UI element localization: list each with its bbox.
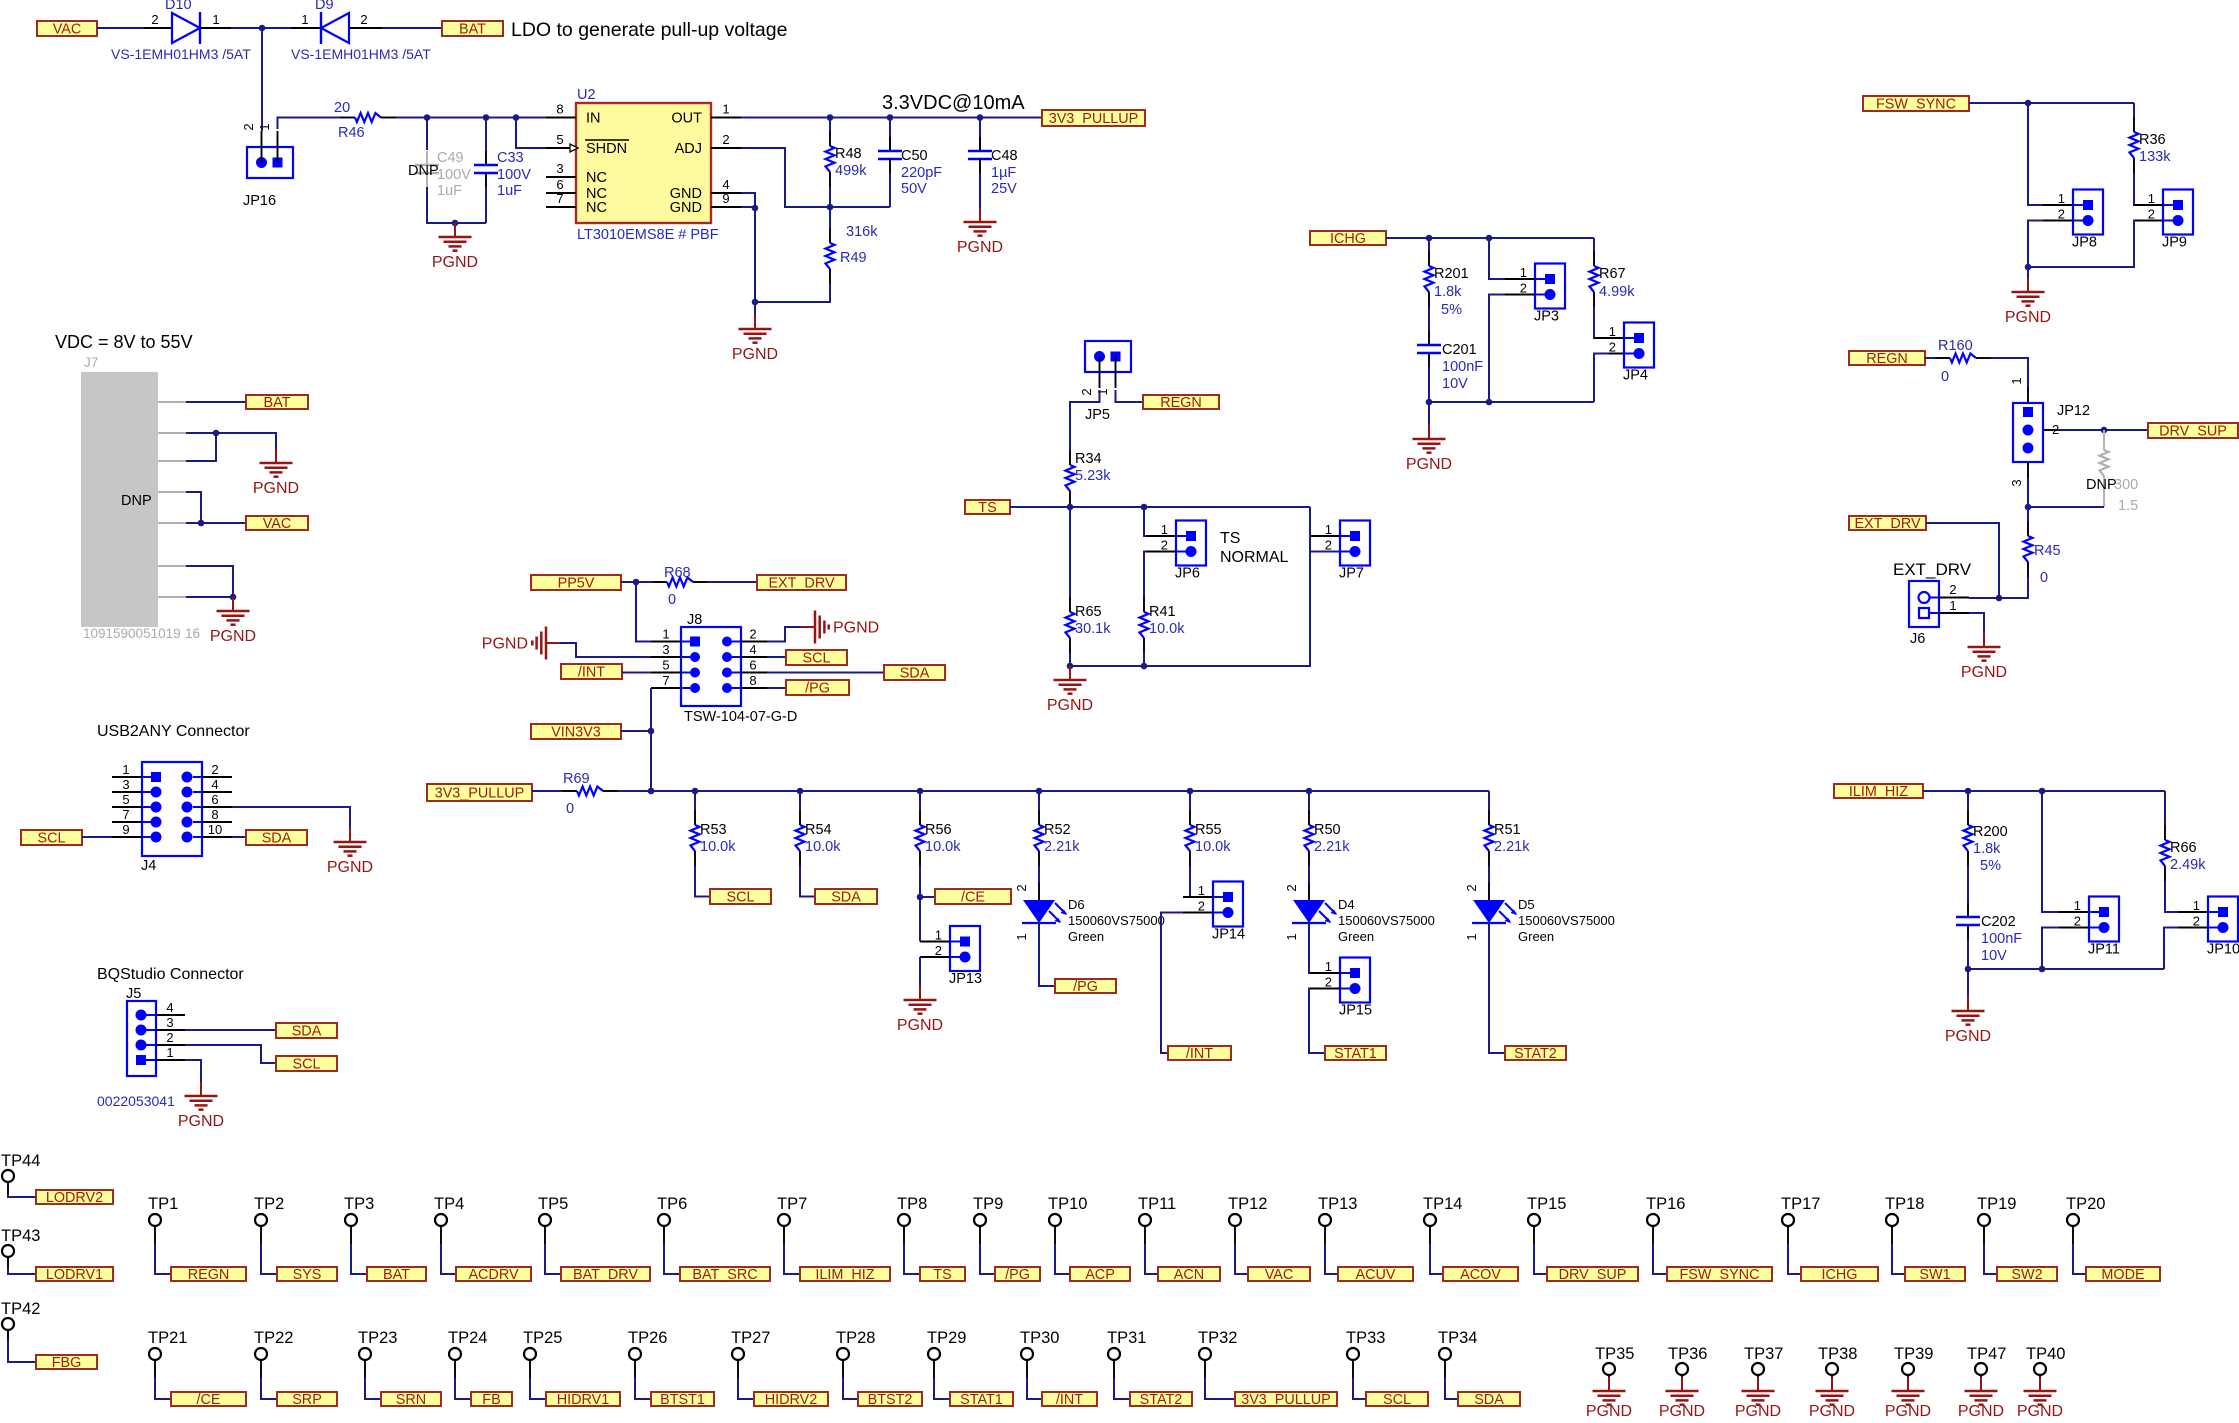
svg-text:SDA: SDA: [262, 831, 292, 847]
test point TP11: [1138, 1195, 1176, 1244]
svg-text:5%: 5%: [1980, 858, 2001, 874]
svg-text:JP16: JP16: [243, 193, 276, 209]
svg-text:TP18: TP18: [1885, 1195, 1924, 1213]
svg-text:ACOV: ACOV: [1460, 1267, 1501, 1283]
test point TP26: [628, 1329, 667, 1378]
net label STAT1 at TP29: [950, 1392, 1013, 1408]
svg-text:TP30: TP30: [1020, 1329, 1059, 1347]
wire TP34 to SDA: [1445, 1378, 1458, 1399]
junction PP5V node: [633, 579, 640, 586]
net label SCL at TP33: [1366, 1392, 1428, 1408]
ground PGND under U2: [732, 315, 778, 363]
svg-text:/CE: /CE: [197, 1392, 221, 1408]
wire TP6 to BAT_SRC: [664, 1244, 680, 1274]
svg-text:1: 1: [1014, 933, 1029, 940]
resistor R49: [826, 224, 879, 284]
resistor R56: [916, 810, 962, 866]
connector J6: [1909, 581, 1969, 647]
test point TP25: [523, 1329, 562, 1378]
capacitor C48: [968, 137, 1018, 197]
svg-text:TP1: TP1: [148, 1195, 178, 1213]
svg-text:10.0k: 10.0k: [700, 839, 736, 855]
wire FSW gnd stem: [2027, 267, 2029, 278]
wire JP6 pin1 branch: [1144, 507, 1176, 536]
svg-text:PGND: PGND: [432, 254, 478, 271]
svg-text:PGND: PGND: [1945, 1028, 1991, 1045]
svg-text:JP10: JP10: [2207, 942, 2239, 958]
net label BAT_DRV at TP5: [561, 1267, 650, 1283]
net label FBG: [36, 1355, 97, 1371]
capacitor C49 (DNP): [415, 150, 471, 199]
test point TP3: [344, 1195, 374, 1244]
wire JP3 pin1 branch: [1489, 238, 1505, 279]
svg-text:1: 1: [1198, 883, 1205, 898]
svg-text:/CE: /CE: [961, 890, 985, 906]
wire TP30 to /INT: [1027, 1378, 1042, 1399]
jumper JP7: [1310, 521, 1370, 582]
svg-text:1.8k: 1.8k: [1434, 284, 1462, 300]
svg-text:TP32: TP32: [1198, 1329, 1237, 1347]
wire J8 pin8 to /PG: [767, 687, 786, 689]
svg-text:R55: R55: [1195, 822, 1222, 838]
wire R46 to U2 IN: [396, 117, 546, 119]
svg-text:TS: TS: [933, 1267, 951, 1283]
wire JP7 pin1 stub wire: [1310, 535, 1340, 537]
svg-text:PGND: PGND: [482, 636, 528, 653]
test point TP14: [1423, 1195, 1462, 1244]
wire C49 top lead: [426, 118, 428, 151]
wire C50 bottom lead: [889, 173, 891, 207]
wire R201 top lead: [1428, 238, 1430, 251]
svg-text:1: 1: [2009, 377, 2024, 384]
wire TP16 to FSW_SYNC: [1653, 1244, 1667, 1274]
wire J8 pin6 to SDA: [767, 672, 884, 674]
ground PGND under C33: [432, 223, 478, 271]
svg-text:DRV_SUP: DRV_SUP: [1559, 1267, 1627, 1283]
svg-text:1: 1: [1325, 522, 1332, 537]
resistor R34: [1066, 450, 1112, 506]
wire J6 pin1 to ground: [1969, 613, 1984, 633]
svg-text:R69: R69: [563, 771, 590, 787]
svg-text:TP28: TP28: [836, 1329, 875, 1347]
svg-text:SYS: SYS: [293, 1267, 322, 1283]
net label 3V3_PULLUP at TP32: [1235, 1392, 1337, 1408]
svg-text:1: 1: [1609, 324, 1616, 339]
svg-text:2: 2: [2052, 422, 2059, 437]
wire TP4 to ACDRV: [441, 1244, 456, 1274]
svg-text:TP38: TP38: [1818, 1345, 1857, 1363]
jumper JP15: [1310, 958, 1372, 1019]
junction VIN3V3 node: [648, 728, 655, 735]
svg-text:SDA: SDA: [900, 666, 930, 682]
svg-text:R54: R54: [805, 822, 832, 838]
wire R50 to D4: [1308, 866, 1310, 883]
ground PGND at J6: [1961, 633, 2007, 681]
net label SDA at TP34: [1458, 1392, 1520, 1408]
wire VIN3V3 to node: [621, 730, 651, 732]
svg-text:JP9: JP9: [2162, 235, 2187, 251]
wire SCL to J4 pin9: [82, 836, 112, 838]
svg-text:1: 1: [1520, 265, 1527, 280]
ground PGND right of J8: [801, 611, 879, 644]
wire D5 to STAT2: [1489, 923, 1505, 1053]
jumper JP12: [2009, 387, 2090, 487]
wire R66 top lead: [2164, 791, 2166, 825]
net label /INT at TP30: [1042, 1392, 1097, 1408]
svg-text:6: 6: [749, 658, 756, 673]
svg-text:1: 1: [2193, 898, 2200, 913]
svg-text:R41: R41: [1149, 604, 1176, 620]
net label ICHG at TP17: [1801, 1267, 1878, 1283]
wire C48 bottom lead: [979, 173, 981, 208]
svg-text:DRV_SUP: DRV_SUP: [2159, 424, 2227, 440]
wire R52 to D6: [1038, 866, 1040, 883]
test point TP30: [1020, 1329, 1059, 1378]
svg-text:BAT: BAT: [459, 22, 486, 38]
wire TP42 to FBG: [8, 1341, 36, 1362]
net label FSW_SYNC: [1863, 96, 1969, 113]
svg-text:1: 1: [257, 123, 272, 130]
resistor R54: [796, 810, 842, 866]
svg-text:TP42: TP42: [1, 1300, 40, 1318]
svg-text:100V: 100V: [497, 167, 531, 183]
wire R67 top lead: [1593, 238, 1595, 251]
wire JP7 loop: [1070, 507, 1310, 666]
wire TP33 to SCL: [1353, 1378, 1366, 1399]
svg-text:TP20: TP20: [2066, 1195, 2105, 1213]
ground PGND at TP47: [1958, 1377, 2004, 1420]
wire 3V3_PULLUP to R69: [532, 790, 562, 792]
net label SYS at TP2: [277, 1267, 337, 1283]
svg-text:R53: R53: [700, 822, 727, 838]
ground PGND at J7 top: [253, 449, 299, 497]
wire R53 top: [694, 791, 696, 810]
svg-text:LDO to generate pull-up voltag: LDO to generate pull-up voltage: [511, 19, 787, 41]
net label /PG at TP9: [995, 1267, 1040, 1283]
svg-text:2: 2: [1198, 899, 1205, 914]
svg-text:VS-1EMH01HM3 /5AT: VS-1EMH01HM3 /5AT: [291, 46, 431, 62]
wire R51 to D5: [1488, 866, 1490, 883]
junction bus at R56: [917, 788, 924, 795]
wire TP1 to REGN: [155, 1244, 171, 1274]
svg-text:1: 1: [122, 762, 129, 777]
svg-text:1: 1: [1095, 388, 1110, 395]
net label REGN at TP1: [171, 1267, 246, 1283]
jumper JP11: [2059, 897, 2120, 958]
test point TP47: [1967, 1345, 2006, 1379]
svg-text:R52: R52: [1044, 822, 1071, 838]
wire TP9 to /PG: [980, 1244, 995, 1274]
svg-text:3: 3: [662, 642, 669, 657]
svg-text:/INT: /INT: [578, 665, 605, 681]
test point TP24: [448, 1329, 487, 1378]
svg-text:300: 300: [2114, 477, 2138, 493]
svg-text:TP16: TP16: [1646, 1195, 1685, 1213]
net label EXT_DRV mid: [757, 575, 846, 592]
svg-text:R200: R200: [1973, 824, 2008, 840]
svg-text:2: 2: [1079, 388, 1094, 395]
wire J5 pin1 to ground: [185, 1060, 201, 1082]
wire R50 top: [1308, 791, 1310, 810]
net label /INT at J8: [561, 664, 622, 681]
wire ILIM gnd rail: [1968, 968, 2164, 970]
net label VAC at TP12: [1248, 1267, 1310, 1283]
svg-text:NORMAL: NORMAL: [1220, 549, 1289, 566]
wire D9 pin2 lead: [349, 27, 382, 29]
resistor R66: [2161, 825, 2207, 881]
wire D10 to junction: [231, 27, 291, 29]
test point TP10: [1048, 1195, 1087, 1244]
svg-text:SRP: SRP: [292, 1392, 322, 1408]
net label HIDRV1 at TP25: [546, 1392, 620, 1408]
resistor R69: [562, 771, 618, 817]
wire C50 top lead: [889, 118, 891, 152]
test point TP20: [2066, 1195, 2105, 1244]
svg-text:SDA: SDA: [1474, 1392, 1504, 1408]
junction EXT_DRV node: [2025, 504, 2032, 511]
wire C33 bottom lead: [485, 187, 487, 223]
junction bus at R54: [797, 788, 804, 795]
junction FSW gnd node: [2025, 264, 2032, 271]
svg-text:7: 7: [662, 673, 669, 688]
wire R52 top: [1038, 791, 1040, 810]
wire TP11 to ACN: [1145, 1244, 1158, 1274]
wire TP14 to ACOV: [1430, 1244, 1443, 1274]
wire ICHG rail: [1386, 237, 1594, 239]
svg-text:D4: D4: [1338, 897, 1355, 912]
svg-text:FSW_SYNC: FSW_SYNC: [1876, 97, 1956, 113]
net label ILIM_HIZ: [1834, 784, 1923, 800]
svg-text:TP36: TP36: [1668, 1345, 1707, 1363]
net label BAT at TP3: [367, 1267, 426, 1283]
svg-text:6: 6: [556, 177, 563, 192]
svg-text:0: 0: [1941, 369, 1949, 385]
wire J4 pin6 to ground: [232, 807, 350, 828]
svg-text:D9: D9: [315, 0, 334, 13]
svg-text:4: 4: [211, 777, 218, 792]
junction bus at J8 column: [648, 788, 655, 795]
svg-text:ICHG: ICHG: [1330, 231, 1366, 247]
wire R48 bottom: [829, 187, 831, 207]
net label ICHG: [1310, 231, 1386, 247]
svg-text:SCL: SCL: [727, 890, 755, 906]
test point TP37: [1744, 1345, 1783, 1379]
jumper JP16: [241, 123, 293, 209]
test point TP8: [897, 1195, 927, 1244]
svg-text:OUT: OUT: [671, 111, 702, 127]
net label SCL bus: [710, 889, 771, 906]
net label ACUV at TP13: [1338, 1267, 1413, 1283]
svg-text:SW1: SW1: [1919, 1267, 1950, 1283]
svg-text:133k: 133k: [2139, 149, 2171, 165]
test point TP42: [1, 1300, 40, 1344]
note VDC = 8V to 55V: [55, 332, 193, 352]
svg-text:1091590051019: 1091590051019: [83, 626, 181, 641]
svg-text:TP4: TP4: [434, 1195, 464, 1213]
test point TP15: [1527, 1195, 1566, 1244]
svg-text:EXT_DRV: EXT_DRV: [1893, 560, 1972, 579]
svg-text:SCL: SCL: [803, 651, 831, 667]
svg-text:USB2ANY Connector: USB2ANY Connector: [97, 723, 250, 740]
wire JP5 pin2 to R34: [1070, 390, 1100, 450]
wire JP12 pin2 to DRV_SUP: [2059, 429, 2148, 431]
junction DRV_SUP node: [2101, 427, 2108, 434]
svg-text:PGND: PGND: [2017, 1403, 2063, 1418]
test point TP18: [1885, 1195, 1924, 1244]
svg-text:2: 2: [1161, 538, 1168, 553]
svg-text:R48: R48: [835, 146, 862, 162]
ground PGND at ICHG: [1406, 425, 1452, 473]
resistor R46: [334, 100, 396, 141]
wire TP43 to LODRV1: [8, 1269, 36, 1274]
svg-text:PP5V: PP5V: [558, 576, 595, 592]
svg-text:C33: C33: [497, 150, 524, 166]
wire JP14 pin2 to /INT: [1161, 913, 1183, 1054]
svg-text:VAC: VAC: [53, 22, 82, 38]
wire J7 pin6 bend: [186, 566, 233, 597]
net label PP5V: [531, 575, 621, 592]
svg-text:25V: 25V: [991, 181, 1017, 197]
svg-text:1.5: 1.5: [2118, 498, 2138, 514]
jumper JP14: [1183, 882, 1245, 943]
svg-text:PGND: PGND: [178, 1113, 224, 1130]
net label STAT1: [1325, 1046, 1386, 1062]
svg-text:TP25: TP25: [523, 1329, 562, 1347]
connector J8: [651, 612, 797, 725]
junction J7 VAC node: [198, 520, 205, 527]
test point TP13: [1318, 1195, 1357, 1244]
junction SHDN branch: [513, 114, 520, 121]
wire R200 to C202: [1967, 866, 1969, 903]
junction gnd rail JP11: [2039, 966, 2046, 973]
svg-text:R45: R45: [2034, 543, 2061, 559]
wire R49 top lead: [829, 207, 831, 228]
svg-text:JP11: JP11: [2088, 942, 2120, 958]
svg-text:1: 1: [1284, 933, 1299, 940]
svg-text:3: 3: [122, 777, 129, 792]
svg-text:LT3010EMS8E # PBF: LT3010EMS8E # PBF: [577, 227, 719, 243]
wire TP20 to MODE: [2073, 1244, 2086, 1274]
svg-text:D6: D6: [1068, 897, 1085, 912]
resistor R160: [1935, 338, 1991, 385]
connector J5: [97, 986, 185, 1109]
capacitor C201: [1417, 331, 1483, 392]
svg-text:2: 2: [360, 12, 367, 27]
svg-text:D5: D5: [1518, 897, 1535, 912]
wire R56 to /CE node: [920, 866, 935, 897]
wire R201 to C201: [1428, 307, 1430, 331]
svg-text:R160: R160: [1938, 338, 1973, 354]
ground PGND at FSW: [2005, 278, 2051, 326]
junction bus at R53: [692, 788, 699, 795]
note 3.3VDC at 10mA: [882, 92, 1025, 114]
svg-text:TP19: TP19: [1977, 1195, 2016, 1213]
junction JP11 branch: [2039, 788, 2046, 795]
svg-text:TP13: TP13: [1318, 1195, 1357, 1213]
net label HIDRV2 at TP27: [754, 1392, 828, 1408]
svg-text:1: 1: [662, 627, 669, 642]
wire R54 to SDA: [800, 866, 815, 897]
svg-text:1: 1: [1464, 933, 1479, 940]
svg-text:PGND: PGND: [1735, 1403, 1781, 1418]
ground PGND at TP37: [1735, 1377, 1781, 1420]
svg-text:VAC: VAC: [1265, 1267, 1294, 1283]
svg-text:BTST1: BTST1: [660, 1392, 705, 1408]
wire D6 to /PG: [1039, 923, 1055, 986]
ground PGND at J7 bottom: [210, 597, 256, 645]
net label VIN3V3: [531, 724, 621, 741]
svg-text:BQStudio Connector: BQStudio Connector: [97, 966, 244, 983]
pin number 1 of JP12: [2009, 377, 2024, 384]
svg-text:R46: R46: [338, 125, 365, 141]
svg-text:3: 3: [556, 161, 563, 176]
wire R67 to JP4 pin1: [1594, 307, 1609, 338]
jumper JP3: [1505, 264, 1565, 325]
wire TP31 to STAT2: [1114, 1378, 1130, 1399]
wire TP19 to SW2: [1984, 1244, 1997, 1274]
test point TP28: [836, 1329, 875, 1378]
junction ground rail node: [752, 299, 759, 306]
resistor R51: [1485, 810, 1531, 866]
svg-text:2: 2: [241, 123, 256, 130]
wire R36 top lead: [2133, 103, 2135, 117]
svg-text:TP31: TP31: [1107, 1329, 1146, 1347]
LED D4: [1284, 883, 1435, 944]
wire J8 pin7 down: [650, 688, 652, 791]
wire D9 to BAT: [382, 27, 442, 29]
wire D10 pin1 lead: [200, 27, 231, 29]
svg-text:PGND: PGND: [897, 1017, 943, 1034]
wire JP4 pin2 from gnd rail: [1594, 354, 1609, 403]
junction gnd rail R41: [1141, 663, 1148, 670]
svg-text:FB: FB: [482, 1392, 500, 1408]
wire R34 to TS node: [1069, 506, 1071, 507]
svg-text:10.0k: 10.0k: [805, 839, 841, 855]
wire R55 top: [1189, 791, 1191, 810]
net label FB at TP24: [471, 1392, 512, 1408]
svg-text:10V: 10V: [1981, 948, 2007, 964]
wire R65 bottom: [1069, 653, 1071, 666]
svg-text:PGND: PGND: [327, 859, 373, 876]
net label ACDRV at TP4: [456, 1267, 531, 1283]
ground PGND at J4: [327, 828, 373, 876]
svg-text:/PG: /PG: [805, 681, 830, 697]
wire R66 to JP10: [2165, 881, 2178, 912]
pin number 2 of D9: [360, 12, 367, 27]
ground PGND left of J8: [482, 627, 560, 660]
svg-text:TP6: TP6: [657, 1195, 687, 1213]
svg-text:PGND: PGND: [1659, 1403, 1705, 1418]
wire R68 to EXT_DRV: [708, 581, 757, 583]
svg-text:/PG: /PG: [1073, 979, 1098, 995]
net label BAT: [442, 21, 503, 38]
svg-text:TP11: TP11: [1138, 1195, 1176, 1213]
net label VAC at J7: [246, 516, 308, 532]
wire R160 to JP12: [1991, 358, 2028, 387]
wire TP22 to SRP: [261, 1378, 277, 1399]
svg-text:16: 16: [185, 626, 200, 641]
wire bus corner down to R51: [1488, 791, 1490, 810]
svg-text:TP14: TP14: [1423, 1195, 1462, 1213]
resistor R55: [1186, 810, 1232, 866]
jumper JP13: [920, 926, 982, 987]
svg-text:3.3VDC@10mA: 3.3VDC@10mA: [882, 92, 1025, 114]
wire JP11 pin1 branch: [2042, 791, 2059, 912]
pin number 2 of D10: [151, 12, 158, 27]
wire JP3 pin2 down: [1489, 295, 1505, 403]
svg-text:R34: R34: [1075, 451, 1102, 467]
svg-text:PGND: PGND: [1047, 697, 1093, 714]
